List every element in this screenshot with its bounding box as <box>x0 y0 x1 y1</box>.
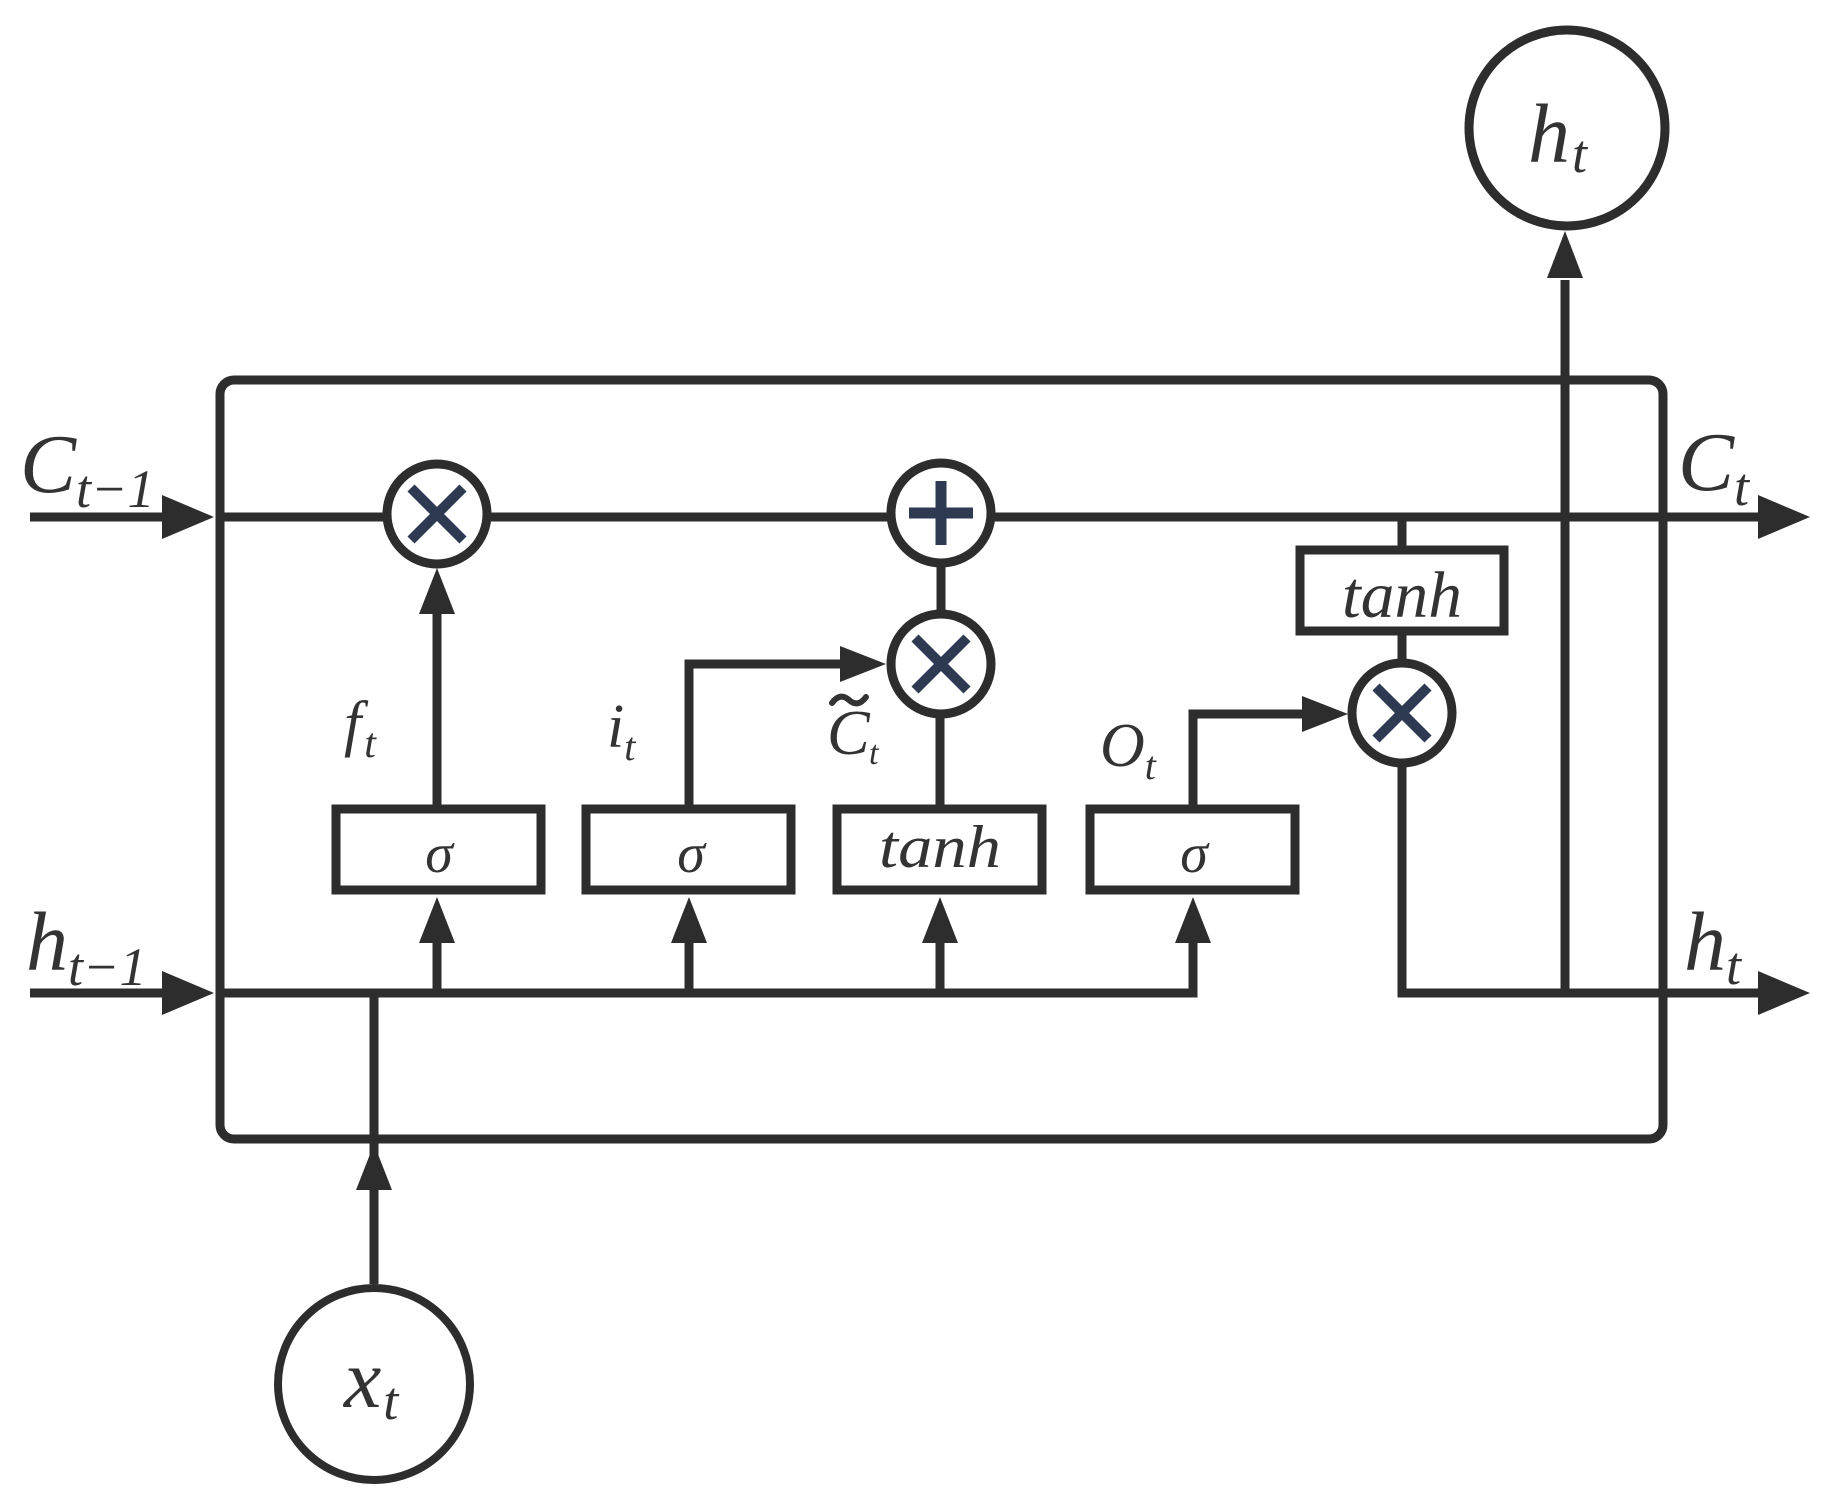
wire C line stub down to tanh block <box>1398 517 1407 560</box>
svg-text:σ: σ <box>1180 823 1210 885</box>
wire h(t-1) input <box>30 989 200 998</box>
multiply node input x candidate <box>891 614 991 714</box>
sigma gate 1 box <box>336 809 541 890</box>
sigma gate 4 box <box>1090 809 1295 890</box>
arrowhead into h(t) circle <box>1547 231 1583 278</box>
arrowhead i(t) into multiply node <box>840 646 886 682</box>
x(t) input circle <box>278 1288 470 1480</box>
svg-text:C: C <box>827 697 871 768</box>
arrowhead O(t) into output multiply node <box>1302 696 1348 732</box>
wire branch arrow to sigma gate 2 <box>685 935 694 993</box>
multiply node on C line (forget) <box>387 464 487 564</box>
arrowhead C(t-1) into cell <box>162 495 214 539</box>
tanh gate 3 box <box>837 809 1042 890</box>
wire i(t) path to multiply node <box>689 664 840 806</box>
wire branch arrow to sigma gate 1 <box>433 935 442 993</box>
wire C~ stub from tanh gate to multiply node <box>936 700 945 806</box>
wire h(t) riser to top circle <box>1561 280 1570 993</box>
output multiply node <box>1352 663 1452 763</box>
wire h line lower corridor <box>220 935 1193 993</box>
arrowhead into sigma gate 4 <box>1175 897 1211 943</box>
tanh output block box <box>1300 550 1504 631</box>
sigma gate 2 box <box>586 809 791 890</box>
svg-text:tanh: tanh <box>1342 559 1462 632</box>
arrowhead h(t) output <box>1758 971 1810 1015</box>
wire O(t) path to output multiply node <box>1193 714 1302 806</box>
wire plus node to multiply node connector <box>937 517 946 664</box>
svg-text:t: t <box>869 735 880 772</box>
wire cell state line C <box>220 513 1758 522</box>
wire tanh block to output multiply node <box>1398 628 1407 713</box>
h(t) output circle <box>1469 30 1665 226</box>
svg-text:σ: σ <box>677 823 707 885</box>
wire x(t) riser into cell <box>370 993 379 1284</box>
wire f(t) riser to multiply node <box>433 610 442 806</box>
arrowhead f(t) into multiply node <box>419 568 455 614</box>
svg-text:σ: σ <box>425 823 455 885</box>
LSTM cell body box <box>220 380 1663 1139</box>
wire output multiply node down and right to h(t) output <box>1402 713 1758 993</box>
arrowhead C(t) output <box>1758 495 1810 539</box>
wire branch arrow to tanh gate 3 <box>936 935 945 993</box>
svg-text:tanh: tanh <box>879 814 1001 880</box>
arrowhead h(t-1) into cell <box>162 971 214 1015</box>
wire C(t-1) input <box>30 513 200 522</box>
arrowhead x(t) into h line <box>356 1144 392 1190</box>
plus node on C line <box>891 463 991 563</box>
